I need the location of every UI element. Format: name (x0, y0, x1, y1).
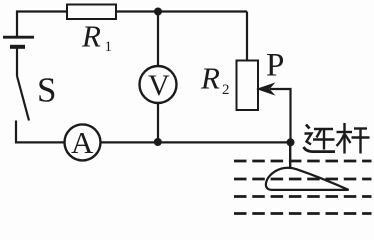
wire: top-right corner down to R2 top (246, 12, 248, 61)
battery (cell) plates (3, 37, 34, 47)
wire: voltmeter branch vertical (157, 12, 159, 143)
rheostat R2 body (237, 61, 259, 111)
svg-text:S: S (37, 71, 56, 110)
wire: switch lower terminal stub and bottom wire to ammeter (16, 121, 65, 143)
svg-text:P: P (266, 48, 284, 84)
node C (wiper joins bottom wire) (287, 138, 295, 146)
svg-text:A: A (71, 125, 94, 160)
杆 (337, 131, 353, 133)
label R1 (81, 19, 112, 56)
node B (bottom junction of voltmeter branch) (154, 138, 162, 146)
wire: R1 right to top-right corner (116, 10, 247, 12)
float (airfoil-shaped body) (266, 168, 349, 190)
node A (top junction of voltmeter branch) (154, 8, 162, 16)
svg-text:R: R (81, 19, 101, 54)
连 (306, 125, 310, 129)
wiper P arrow into R2 (259, 84, 291, 142)
liquid surface dashed line 4 (234, 212, 372, 215)
svg-text:1: 1 (105, 39, 113, 55)
liquid surface dashed line 1 (234, 160, 372, 163)
label R2 (200, 61, 230, 99)
liquid surface dashed line 2 (234, 178, 372, 181)
wire: bottom wire from ammeter to node C (65, 141, 291, 143)
ammeter A (65, 124, 101, 160)
wire: battery negative down to switch (16, 49, 18, 77)
switch S blade (17, 76, 29, 121)
svg-text:R: R (200, 61, 220, 96)
label 连杆 (connecting rod), drawn as strokes (304, 123, 370, 154)
connecting rod from node C down to float (289, 142, 291, 168)
liquid surface dashed line 3 (234, 195, 372, 198)
wire: battery positive up to top-left corner and right to R1 (17, 12, 67, 37)
resistor R1 (67, 5, 116, 20)
svg-text:2: 2 (222, 82, 230, 98)
svg-text:V: V (148, 69, 170, 102)
voltmeter V (140, 66, 177, 103)
